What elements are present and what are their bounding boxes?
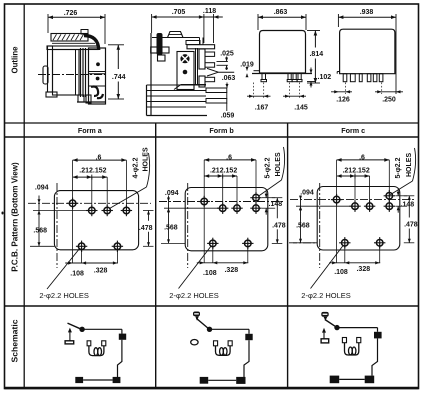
- view2 dimension .705 and .118: [152, 8, 223, 43]
- form c pcb: bottom hole 1: [339, 237, 350, 248]
- form b pcb: dimension .212 .152: [204, 167, 237, 178]
- form b schematic: fixed contact (top): [193, 312, 200, 321]
- form c schematic: coil winding: [345, 343, 359, 355]
- form a pcb: left stub lines: [30, 211, 92, 247]
- svg-text:Form a: Form a: [78, 126, 103, 135]
- form b pcb: left stub lines: [161, 208, 223, 243]
- svg-text:.059: .059: [221, 113, 235, 120]
- view2 terminal plate upper: [199, 49, 205, 69]
- view3 dimension .814: [307, 31, 323, 84]
- svg-text:.938: .938: [360, 9, 374, 16]
- svg-text:.145: .145: [294, 105, 308, 112]
- form b pcb: dimension .6: [204, 154, 256, 161]
- svg-text:.726: .726: [64, 10, 78, 17]
- form b pcb: hole A: [199, 196, 210, 207]
- svg-text:.212.152: .212.152: [79, 167, 106, 174]
- form a pcb: bottom hole 2: [112, 241, 123, 252]
- form c pcb: extension lines: [337, 160, 390, 206]
- svg-text:.108: .108: [334, 269, 348, 276]
- form c schematic: switch blade: [325, 320, 337, 328]
- form c pcb: hole A: [331, 194, 342, 205]
- form a pcb: extension lines: [73, 160, 127, 210]
- view2 top right plates: [186, 38, 215, 49]
- view2 left bracket bar: [151, 47, 169, 53]
- svg-text:.212.152: .212.152: [342, 167, 369, 174]
- form c pcb: dimension .6: [337, 154, 390, 161]
- svg-text:.148: .148: [269, 201, 283, 208]
- view2 top edge: [152, 37, 200, 39]
- view1 bracket foot: [46, 92, 57, 97]
- form b pcb: dimension .568: [164, 208, 178, 243]
- form a pcb: package outline: [54, 191, 138, 250]
- form a pcb: leader to hole: [110, 187, 147, 209]
- form b pcb: dimension .108 .328: [197, 202, 249, 277]
- form b pcb: label 5-φ2.2 HOLES (rotated): [265, 147, 285, 180]
- form b schematic: terminal 1 (square): [245, 334, 252, 340]
- form a pcb: bottom hole 1: [76, 241, 87, 252]
- view4 dimension .250: [375, 27, 403, 104]
- form a schematic: bottom wire: [83, 379, 113, 381]
- view2 dimension .063: [222, 75, 236, 88]
- row label: P.C.B. Pattern (Bottom View): [11, 162, 20, 272]
- svg-text:Form c: Form c: [341, 126, 365, 135]
- view3 dimension .102: [307, 68, 331, 88]
- form c pcb: vertical centerline: [319, 183, 321, 268]
- svg-text:.328: .328: [224, 267, 238, 274]
- svg-text:.108: .108: [203, 270, 217, 277]
- view4 pin 1: [343, 74, 347, 82]
- view1 hinge spring curve: [84, 36, 99, 51]
- view2 pin 2: [205, 63, 215, 67]
- form b pcb: dimension .148: [262, 191, 282, 215]
- form b pcb: hole D top: [250, 192, 261, 203]
- view1 block dividers: [89, 72, 106, 87]
- form c schematic: coil pin right: [357, 338, 361, 343]
- view1 base pins: [77, 95, 106, 103]
- svg-text:.250: .250: [382, 97, 396, 104]
- svg-text:P.C.B. Pattern (Bottom View): P.C.B. Pattern (Bottom View): [11, 162, 20, 272]
- form b schematic: wire down to terminal 1: [248, 329, 250, 334]
- form a pcb: dimension .212 .152: [73, 167, 108, 179]
- view3 pin a: [261, 74, 267, 82]
- view2 dimension .025: [217, 50, 234, 70]
- form b pcb: dimension .094: [165, 190, 179, 212]
- view4 pin 2: [350, 74, 355, 82]
- svg-text:.212.152: .212.152: [210, 167, 237, 174]
- form a pcb: dimension .094: [35, 184, 49, 214]
- svg-text:.568: .568: [164, 224, 178, 231]
- view2 body left outline: [150, 33, 152, 116]
- view2 pin 5: [206, 99, 227, 104]
- view2 coil with screw: [177, 52, 194, 90]
- form a schematic: wire with jog: [118, 340, 122, 377]
- form c schematic: wire with jog: [372, 338, 378, 375]
- form b schematic: terminal 2 (bottom right square): [236, 377, 245, 384]
- svg-text:.6: .6: [96, 154, 102, 161]
- form b pcb: hole E: [250, 203, 261, 214]
- svg-text:.118: .118: [203, 8, 216, 15]
- view1 terminal hooks: [91, 87, 103, 99]
- view4 pin 3: [359, 74, 362, 82]
- view1 coil end cap: [43, 66, 48, 84]
- svg-text:.568: .568: [296, 222, 310, 229]
- svg-text:.6: .6: [359, 154, 365, 161]
- view2 dimension .059: [221, 93, 235, 120]
- form c pcb: dimension .148: [395, 189, 414, 212]
- view1 armature top plate: [51, 30, 95, 44]
- view1 dimension .726: [48, 10, 105, 44]
- view1 contact rivet lower: [96, 77, 100, 81]
- form a schematic: coil pin right: [102, 341, 106, 346]
- form c pcb: hole E: [384, 201, 395, 212]
- row label: Outline: [11, 46, 20, 74]
- form b pcb: dimension .478: [272, 198, 286, 244]
- view4 case outline: [340, 29, 395, 73]
- form c schematic: fixed contact (top): [321, 312, 328, 321]
- form c schematic: bottom wire: [339, 378, 365, 380]
- form c pcb: hole B: [349, 201, 360, 212]
- form a schematic: pivot node: [79, 327, 84, 332]
- view2 leader wedge: [207, 68, 234, 76]
- column divider Form a/b: [155, 123, 157, 389]
- form a schematic: terminal 1 (square): [119, 334, 126, 340]
- svg-text:HOLES: HOLES: [143, 147, 150, 171]
- form a pcb: dimension .6: [73, 154, 127, 162]
- form c schematic: terminal 3 (bottom left square): [330, 376, 340, 384]
- form b schematic: wire with jog: [244, 340, 249, 377]
- view1 contact spring stack: [81, 48, 86, 97]
- form a schematic: terminal 3 (bottom left square): [75, 377, 83, 383]
- svg-text:.063: .063: [222, 75, 236, 82]
- svg-text:.478: .478: [272, 222, 286, 229]
- table bottom border (thick): [5, 387, 419, 390]
- view4 pin 5: [373, 74, 377, 82]
- form c pcb: left stub lines: [293, 206, 355, 243]
- form b pcb: extension lines: [204, 160, 256, 208]
- form b schematic: pivot node: [207, 327, 212, 332]
- view4 pin 4: [367, 74, 371, 82]
- horizontal rule above schematic row: [5, 305, 419, 307]
- form a pcb: label 4-φ2.2 HOLES (rotated): [133, 147, 150, 187]
- svg-text:.6: .6: [226, 154, 232, 161]
- view2 spring contacts: [196, 48, 198, 85]
- svg-text:.328: .328: [356, 266, 370, 273]
- svg-text:.148: .148: [401, 202, 415, 209]
- svg-text:.102: .102: [318, 74, 332, 81]
- form a pcb: hole A: [67, 198, 78, 209]
- form b pcb: leader to hole: [258, 180, 281, 196]
- form a schematic: wire pivot to coil terminal: [82, 328, 122, 330]
- horizontal rule above form header: [5, 122, 419, 124]
- form c pcb: bottom row dash-dot stub: [289, 242, 317, 244]
- form c pcb: hole C: [364, 201, 375, 212]
- form c schematic: terminal 2 (bottom right square): [365, 376, 375, 384]
- form c schematic: wire pivot to terminal: [337, 327, 378, 329]
- svg-text:2-φ2.2 HOLES: 2-φ2.2 HOLES: [301, 291, 350, 300]
- form c pcb: dimension .478: [404, 196, 418, 243]
- svg-text:4-φ2.2: 4-φ2.2: [133, 157, 140, 178]
- form c pcb: dimension .108 .328: [329, 200, 380, 276]
- svg-text:HOLES: HOLES: [406, 153, 413, 177]
- view1 yoke vertical bracket: [48, 46, 53, 92]
- form c schematic: armature bar: [321, 339, 329, 343]
- form a pcb: horizontal centerline: [28, 202, 151, 204]
- svg-text:HOLES: HOLES: [275, 152, 282, 176]
- form a schematic: switch blade: [68, 323, 82, 329]
- view4 dimension .126: [331, 83, 352, 104]
- svg-text:.705: .705: [172, 9, 186, 16]
- view3 pin c: [292, 74, 297, 82]
- form c schematic: actuation arrow: [322, 328, 326, 339]
- form a pcb: vertical centerline: [56, 183, 58, 268]
- form a schematic: actuation arrow: [68, 328, 72, 341]
- svg-text:.094: .094: [165, 190, 179, 197]
- svg-text:.126: .126: [336, 97, 350, 104]
- form b schematic: switch blade: [196, 318, 209, 329]
- view3 dimension .145: [283, 83, 308, 112]
- view1 contact block: [89, 48, 106, 104]
- svg-text:Form b: Form b: [209, 126, 234, 135]
- view1 dimension .744: [108, 45, 126, 99]
- view3 case outline: [260, 31, 306, 74]
- view3 base flange: [252, 71, 312, 74]
- form b schematic: bottom wire: [208, 379, 236, 381]
- form a schematic: armature bar: [65, 341, 74, 344]
- view2 top cap: [168, 32, 184, 38]
- form a schematic: terminal 2 (bottom right square): [113, 377, 121, 383]
- form b pcb: hole B: [217, 203, 228, 214]
- svg-text:.744: .744: [112, 74, 126, 81]
- form b schematic: coil pin left: [214, 341, 218, 346]
- view1 coil body: [53, 50, 80, 96]
- form c pcb: label 2-φ2.2 HOLES: [301, 291, 350, 300]
- form a pcb: leader to bottom hole: [47, 248, 80, 289]
- form b pcb: package outline: [185, 188, 268, 251]
- scan speck (left margin): [2, 212, 4, 215]
- view4 dimension .938: [338, 9, 396, 27]
- form b pcb: bottom hole 2: [242, 238, 253, 249]
- form b pcb: hole C: [231, 203, 242, 214]
- form c pcb: leader to bottom hole: [311, 245, 344, 289]
- horizontal rule below form header: [5, 136, 419, 138]
- svg-text:Outline: Outline: [11, 46, 20, 74]
- form c schematic: pivot node: [334, 325, 339, 330]
- view2 pin 4: [206, 88, 227, 93]
- form a schematic: coil pin left: [87, 341, 91, 346]
- header cell: Form b: [209, 126, 234, 135]
- form a pcb: dimension .478: [139, 211, 154, 247]
- view2 release lever: [157, 33, 166, 61]
- form a schematic: wire down to terminal 1: [121, 329, 123, 334]
- svg-text:.167: .167: [255, 105, 269, 112]
- view2 pin 3: [205, 77, 215, 81]
- svg-text:.478: .478: [139, 225, 153, 232]
- view4 base edge: [337, 72, 339, 74]
- svg-text:.814: .814: [309, 51, 323, 58]
- form a pcb: hole D: [121, 205, 132, 216]
- form a pcb: dimension .108 .328: [65, 203, 118, 277]
- view3 dimension .019: [240, 62, 254, 78]
- svg-text:.094: .094: [35, 184, 49, 191]
- form a pcb: hole C: [102, 205, 113, 216]
- form c schematic: wire down to terminal 1: [377, 328, 379, 332]
- view3 pin b: [287, 74, 292, 82]
- view3 dimension .863: [258, 9, 306, 30]
- form c schematic: coil pin left: [342, 338, 346, 343]
- form c pcb: horizontal centerline: [290, 199, 416, 201]
- form c pcb: package outline: [317, 187, 400, 251]
- svg-text:2-φ2.2 HOLES: 2-φ2.2 HOLES: [169, 291, 218, 300]
- form b pcb: label 2-φ2.2 HOLES: [169, 291, 218, 300]
- svg-text:.094: .094: [300, 189, 314, 196]
- svg-text:Schematic: Schematic: [10, 319, 20, 362]
- form a schematic: coil winding: [89, 346, 104, 356]
- svg-text:5-φ2.2: 5-φ2.2: [395, 157, 402, 178]
- view2 pin 1: [205, 52, 215, 56]
- form c pcb: dimension .568: [296, 206, 310, 243]
- svg-text:.478: .478: [404, 222, 418, 229]
- form c pcb: label 5-φ2.2 HOLES (rotated): [395, 148, 416, 181]
- view3 pin d: [297, 74, 302, 82]
- form c pcb: dimension .212 .152: [337, 167, 370, 178]
- svg-text:5-φ2.2: 5-φ2.2: [265, 157, 272, 178]
- view2 terminal plate lower: [199, 76, 205, 87]
- svg-text:.025: .025: [220, 50, 234, 57]
- column divider Form b/c: [287, 123, 289, 389]
- form a pcb: dimension .568: [33, 211, 47, 247]
- form b schematic: terminal 3 (bottom left square): [200, 377, 209, 384]
- svg-text:.108: .108: [70, 270, 84, 277]
- row label: Schematic: [10, 319, 20, 362]
- row-label column divider: [23, 4, 25, 389]
- view2 base stack: [147, 85, 208, 116]
- svg-text:2-φ2.2 HOLES: 2-φ2.2 HOLES: [39, 291, 88, 300]
- form b pcb: vertical centerline: [187, 183, 189, 268]
- view4 pin 6: [379, 74, 383, 82]
- view1 contact rivet upper: [96, 62, 100, 66]
- form b schematic: wire pivot to terminal: [210, 328, 250, 330]
- svg-text:.328: .328: [94, 268, 108, 275]
- form c pcb: bottom hole 2: [374, 237, 385, 248]
- form b pcb: bottom hole 1: [207, 238, 218, 249]
- form b pcb: leader to bottom hole: [179, 246, 212, 289]
- view3 dimension .167: [247, 83, 271, 112]
- form b pcb: horizontal centerline: [159, 201, 284, 203]
- header cell: Form a: [78, 126, 103, 135]
- form b schematic: open contact oval: [191, 340, 198, 345]
- view1 yoke horizontal bar: [47, 46, 98, 50]
- form c schematic: terminal 1 (square): [374, 332, 382, 339]
- form b schematic: coil pin right: [228, 341, 232, 346]
- form a pcb: hole B: [86, 205, 97, 216]
- form b schematic: coil winding: [216, 346, 231, 356]
- form c pcb: leader to hole: [390, 181, 412, 195]
- svg-text:.568: .568: [33, 228, 47, 235]
- form a pcb: label 2-φ2.2 HOLES: [39, 291, 88, 300]
- header cell: Form c: [341, 126, 365, 135]
- form c pcb: dimension .094: [299, 189, 314, 210]
- view1 centerline: [38, 74, 106, 76]
- svg-text:.863: .863: [274, 9, 288, 16]
- form c pcb: hole D top: [384, 190, 395, 201]
